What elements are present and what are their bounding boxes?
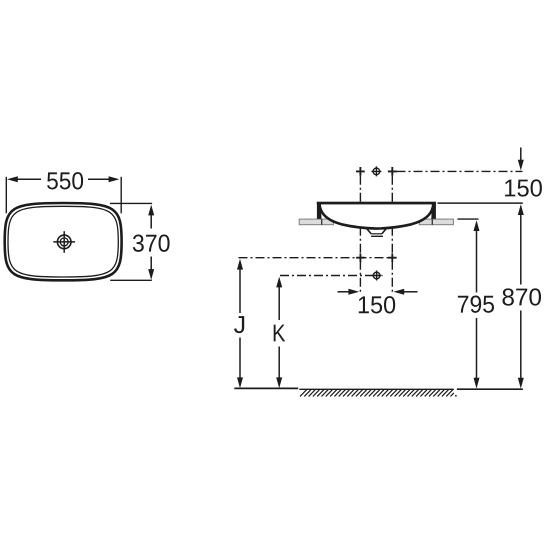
counter hole edge right	[431, 219, 433, 225]
basin bowl interior white fill	[320, 204, 433, 229]
K label	[274, 325, 286, 342]
370 dim line + arrows	[150, 214, 152, 229]
550 dim line + arrows	[17, 178, 41, 180]
counter extension line right	[457, 218, 478, 220]
crosshair waste outlet	[373, 272, 380, 279]
floor line right	[457, 388, 523, 390]
370 dim bottom extension line	[110, 279, 152, 281]
basin right wall	[431, 202, 436, 219]
drain symbol inner circle	[60, 238, 68, 246]
150 top dim: down arrow above centerline	[520, 148, 522, 163]
countertop right section	[419, 219, 453, 225]
cross mark on supply line left	[356, 253, 365, 262]
870 label	[503, 288, 542, 305]
basin outer rim (plan squircle)	[5, 203, 122, 280]
centerline left tap (vertical dash-dot)	[359, 176, 361, 294]
cross mark left tap	[356, 167, 365, 176]
countertop left section	[299, 219, 333, 225]
cross mark right tap	[388, 167, 397, 176]
550 dim right extension line	[120, 177, 122, 214]
centerline right tap (vertical dash-dot)	[391, 176, 393, 294]
795 label	[458, 296, 494, 313]
K dim line	[276, 277, 282, 288]
basin bowl curve	[320, 207, 433, 229]
J dim line	[237, 259, 243, 270]
drain flange	[371, 235, 383, 237]
counter hole edge left	[321, 219, 323, 225]
795 dim line	[474, 220, 480, 231]
550 label	[47, 172, 83, 189]
crosshair faucet center	[373, 168, 380, 175]
floor hatch marks	[300, 390, 454, 397]
150 top label	[505, 179, 542, 196]
150 bottom dim arrows	[338, 291, 351, 293]
150 bottom label	[359, 296, 395, 313]
floor hatch top line	[299, 388, 454, 390]
basin left wall	[317, 202, 322, 219]
drain cup	[367, 229, 386, 234]
drain symbol cross	[53, 241, 75, 243]
J label	[234, 316, 244, 333]
370 dim top extension line	[110, 202, 152, 204]
550 dim left extension line	[5, 177, 7, 214]
centerline horizontal top (dash-dot to right edge)	[397, 170, 523, 172]
cross mark on supply line right	[388, 253, 397, 262]
drain symbol (plan) outer circle	[57, 235, 71, 249]
rim extension line right	[438, 202, 523, 204]
870 dim line	[518, 204, 524, 215]
supply line level (dash-dot horizontal #1)	[239, 257, 393, 259]
370 label	[133, 235, 170, 252]
hatch trailing dot	[455, 395, 457, 397]
floor line left	[234, 387, 298, 389]
waste line level (dash-dot horizontal #2)	[280, 275, 383, 277]
basin inner rim (plan)	[8, 206, 118, 277]
basin rim bar	[317, 202, 436, 205]
